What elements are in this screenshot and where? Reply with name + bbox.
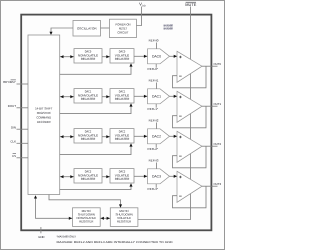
block 14-bit shift register / command decoder xyxy=(28,35,60,195)
svg-text:OUT3: OUT3 xyxy=(213,182,221,186)
svg-text:REGISTER/: REGISTER/ xyxy=(37,111,51,115)
register DAC2 volatile xyxy=(110,129,134,143)
svg-text:REGISTER: REGISTER xyxy=(79,220,94,224)
wire DAC2 volatile to DAC2 xyxy=(134,135,148,138)
wire DAC0 volatile to DAC0 xyxy=(134,55,148,58)
node REFL0* xyxy=(148,64,159,71)
op-amp output buffer U2 xyxy=(177,131,202,162)
register mute/shutdown volatile xyxy=(110,208,138,227)
svg-text:DAC0: DAC0 xyxy=(152,55,161,59)
svg-text:MAX5499: MAX5499 xyxy=(164,27,173,31)
svg-text:REFH1: REFH1 xyxy=(149,79,159,83)
pin VDD xyxy=(139,2,146,8)
wire oscillator to shift register xyxy=(51,28,73,32)
wire DAC1 to buffer xyxy=(170,95,178,98)
svg-text:REGISTER: REGISTER xyxy=(115,137,130,141)
svg-text:REFL1*: REFL1* xyxy=(148,107,159,111)
svg-text:*MAX5499 ONLY: *MAX5499 ONLY xyxy=(57,234,77,238)
svg-text:OUT1: OUT1 xyxy=(213,102,221,106)
wire shift register to DAC0 nonvolatile (bidirectional) xyxy=(60,55,74,58)
register DAC1 volatile xyxy=(110,89,134,103)
svg-text:DIN: DIN xyxy=(11,125,16,129)
svg-text:COMMAND: COMMAND xyxy=(36,116,52,120)
svg-text:GND: GND xyxy=(38,235,44,239)
op-amp output buffer U1 xyxy=(177,91,202,122)
wire CLK xyxy=(17,142,29,144)
wire shift register direct write to DAC1 volatile xyxy=(60,103,133,113)
register DAC3 nonvolatile xyxy=(74,169,102,183)
svg-text:CIRCUIT: CIRCUIT xyxy=(117,30,128,34)
wire DAC1 volatile to DAC1 xyxy=(134,95,148,98)
wire MUTE vertical rail to mute/shutdown volatile register xyxy=(138,7,191,220)
svg-text:REGISTER: REGISTER xyxy=(81,57,96,61)
register DAC0 nonvolatile xyxy=(74,49,102,63)
pin MUTE (active low) xyxy=(185,2,196,7)
wire DAC3 nonvolatile to volatile xyxy=(102,175,110,178)
node REFL2* xyxy=(148,144,159,151)
svg-text:OSCILLATOR: OSCILLATOR xyxy=(77,27,98,31)
svg-text:DAC2: DAC2 xyxy=(152,135,161,139)
svg-text:MAX5498: REFL2 AND REFL3 ARE I: MAX5498: REFL2 AND REFL3 ARE INTERNALLY … xyxy=(57,241,173,244)
register DAC0 volatile xyxy=(110,49,134,63)
svg-text:DOUT: DOUT xyxy=(8,104,16,108)
wire oscillator to power-on reset xyxy=(101,27,110,29)
svg-text:REGISTER: REGISTER xyxy=(81,177,96,181)
pin RDY/BSY xyxy=(3,80,16,84)
wire shift register direct write to mute/shutdown volatile xyxy=(49,195,122,208)
svg-text:14-BIT SHIFT: 14-BIT SHIFT xyxy=(35,106,53,110)
svg-text:DD: DD xyxy=(142,4,146,7)
node REFH1 xyxy=(149,79,159,89)
wire feedback loop U1 xyxy=(173,106,207,128)
svg-text:DECODER: DECODER xyxy=(37,120,51,124)
IC boundary xyxy=(21,15,211,231)
svg-text:OUT0: OUT0 xyxy=(213,62,221,66)
svg-text:OUT2: OUT2 xyxy=(213,142,221,146)
svg-text:REGISTER: REGISTER xyxy=(81,137,96,141)
block oscillator xyxy=(73,21,101,37)
wire feedback loop U0 xyxy=(173,66,207,88)
svg-text:MUTE: MUTE xyxy=(185,2,196,7)
svg-text:CLK: CLK xyxy=(10,139,16,143)
node REFH0 xyxy=(149,39,159,49)
wire shift register to mute/shutdown nonvolatile (bidirectional) xyxy=(34,195,73,220)
DAC D/A converter DAC2 xyxy=(148,129,170,144)
svg-text:REGISTER: REGISTER xyxy=(81,97,96,101)
svg-text:REGISTER: REGISTER xyxy=(115,177,130,181)
wire VDD to power-on reset xyxy=(136,7,141,26)
op-amp output buffer U3 xyxy=(177,171,202,202)
svg-text:RDY/BSY: RDY/BSY xyxy=(3,80,16,84)
svg-text:REFH0: REFH0 xyxy=(149,39,159,43)
wire RDY/BSY xyxy=(17,83,29,85)
wire feedback loop U2 xyxy=(173,146,207,168)
wire DAC2 nonvolatile to volatile xyxy=(102,135,110,138)
wire buffer output to OUT2 xyxy=(202,145,218,147)
wire buffer output to OUT0 xyxy=(202,65,218,67)
svg-text:REFH3: REFH3 xyxy=(149,159,159,163)
wire DAC1 nonvolatile to volatile xyxy=(102,95,110,98)
wire DAC2 to buffer xyxy=(170,135,178,138)
node REFH2 xyxy=(149,119,159,129)
wire DOUT xyxy=(17,107,29,109)
wire shift register to DAC2 nonvolatile (bidirectional) xyxy=(60,135,74,138)
register mute/shutdown nonvolatile xyxy=(73,208,101,227)
svg-text:REGISTER: REGISTER xyxy=(117,220,132,224)
node REFH3 xyxy=(149,159,159,169)
node REFL3* xyxy=(148,184,159,191)
register DAC1 nonvolatile xyxy=(74,89,102,103)
register DAC3 volatile xyxy=(110,169,134,183)
block power-on reset circuit xyxy=(110,19,137,37)
wire DAC3 volatile to DAC3 xyxy=(134,175,148,178)
pin GND xyxy=(38,227,44,239)
svg-text:REFL2*: REFL2* xyxy=(148,147,159,151)
svg-text:REGISTER: REGISTER xyxy=(115,57,130,61)
wire DIN xyxy=(17,128,29,130)
wire DAC0 to buffer xyxy=(170,55,178,58)
DAC D/A converter DAC0 xyxy=(148,49,170,64)
svg-text:REFL3*: REFL3* xyxy=(148,187,159,191)
op-amp output buffer U0 xyxy=(177,51,202,82)
wire mute/shutdown nonvolatile to volatile (bidirectional) xyxy=(100,217,110,220)
wire shift register direct write to DAC0 volatile xyxy=(60,63,133,74)
wire buffer output to OUT3 xyxy=(202,185,218,187)
wire shift register direct write to DAC3 volatile xyxy=(60,183,133,189)
wire shift register direct write to DAC2 volatile xyxy=(60,143,133,154)
node REFL1* xyxy=(148,104,159,111)
DAC D/A converter DAC3 xyxy=(148,169,170,184)
DAC D/A converter DAC1 xyxy=(148,89,170,104)
wire DAC3 to buffer xyxy=(170,175,178,178)
wire shift register to DAC3 nonvolatile (bidirectional) xyxy=(60,175,74,178)
part label MAX5498/MAX5499 xyxy=(164,24,173,31)
svg-text:CS: CS xyxy=(12,154,16,158)
register DAC2 nonvolatile xyxy=(74,129,102,143)
wire CS xyxy=(17,157,29,159)
wire feedback loop U3 xyxy=(173,186,207,208)
pin CS (active low) xyxy=(12,154,16,158)
wire DAC0 nonvolatile to volatile xyxy=(102,55,110,58)
wire buffer output to OUT1 xyxy=(202,105,218,107)
wire shift register to DAC1 nonvolatile (bidirectional) xyxy=(60,95,74,98)
svg-text:REGISTER: REGISTER xyxy=(115,97,130,101)
svg-text:REFL0*: REFL0* xyxy=(148,67,159,71)
svg-text:DAC3: DAC3 xyxy=(152,175,161,179)
svg-text:REFH2: REFH2 xyxy=(149,119,159,123)
svg-text:DAC1: DAC1 xyxy=(152,95,161,99)
